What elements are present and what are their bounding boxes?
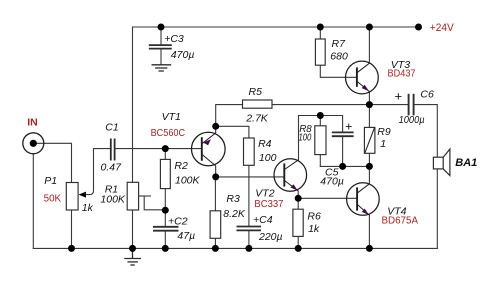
wire R4 bottom lead xyxy=(248,165,250,177)
wire R2 top lead xyxy=(164,149,166,160)
wire R9 top lead xyxy=(368,105,370,128)
wire C5 bottom lead xyxy=(342,136,344,166)
wire VT2 collector riser xyxy=(299,116,343,160)
wire R9 bottom lead xyxy=(368,153,370,166)
input jack IN xyxy=(23,133,44,154)
node C3/top rail xyxy=(158,24,165,31)
wire VT4 emitter lead xyxy=(368,215,370,248)
svg-text:BD437: BD437 xyxy=(388,69,416,80)
wire R8 top lead xyxy=(319,116,321,126)
svg-text:BD675A: BD675A xyxy=(382,216,419,227)
wire VT2 emitter node to VT4 base xyxy=(298,197,357,199)
capacitor C2 47u xyxy=(153,227,179,231)
svg-text:1: 1 xyxy=(380,138,386,150)
wire jack signal to P1 top xyxy=(37,143,72,182)
wire C4 bottom lead xyxy=(248,231,250,249)
transistor VT1 BC560C (PNP) xyxy=(192,126,226,177)
wire R8 bottom lead xyxy=(319,155,321,167)
wire R1 wiper tap xyxy=(139,195,151,197)
resistor R3 xyxy=(210,211,221,239)
node VT2 emitter/R6 xyxy=(295,195,302,202)
node VT1 base/C1/R2 xyxy=(162,145,169,152)
R9 diagonal xyxy=(365,128,375,153)
svg-text:P1: P1 xyxy=(44,175,57,187)
svg-text:100: 100 xyxy=(298,132,311,144)
svg-text:100K: 100K xyxy=(100,193,126,205)
wire top rail +24V xyxy=(133,26,419,28)
svg-text:BA1: BA1 xyxy=(455,157,477,169)
wire VT3 emitter lead xyxy=(368,92,370,105)
capacitor C5 470u xyxy=(332,132,354,136)
svg-text:8.2K: 8.2K xyxy=(223,208,246,220)
svg-text:R3: R3 xyxy=(226,193,240,205)
wire VT4 collector lead xyxy=(368,166,370,183)
svg-text:1k: 1k xyxy=(308,223,320,235)
svg-text:R2: R2 xyxy=(174,160,188,172)
svg-text:BC337: BC337 xyxy=(254,199,283,210)
node VT1 collector/R3 xyxy=(212,173,219,180)
resistor R7 xyxy=(315,39,325,65)
capacitor C1 0.47 xyxy=(111,139,115,161)
wire P1 bottom lead xyxy=(71,210,73,248)
svg-text:R9: R9 xyxy=(377,126,391,138)
node R9 bottom/VT4 collector xyxy=(366,163,373,170)
transistor VT4 BD675A (NPN darlington) xyxy=(347,183,380,216)
wire jack ground drop xyxy=(32,154,34,249)
resistor R1 100K (pot body) xyxy=(127,182,138,210)
resistor R4 xyxy=(244,138,255,165)
svg-text:BC560C: BC560C xyxy=(151,128,186,139)
node +24V terminal xyxy=(415,24,422,31)
node VT4 emitter rail xyxy=(366,245,373,252)
wire R3 bottom lead xyxy=(214,238,216,248)
node R1 bottom/ground xyxy=(129,245,136,252)
resistor R6 xyxy=(293,209,303,236)
svg-text:+: + xyxy=(395,88,403,103)
svg-text:+C2: +C2 xyxy=(168,216,188,228)
wire P1 wiper to C1 xyxy=(81,149,111,195)
wire R7 bottom to VT3 base xyxy=(320,65,357,77)
node R7/top rail xyxy=(317,24,324,31)
ground below C3 xyxy=(152,65,172,71)
node R8 top xyxy=(317,112,324,119)
transistor VT2 BC337 (NPN) xyxy=(274,159,307,192)
wire VT2 emitter short lead xyxy=(297,191,299,198)
node C5 bottom xyxy=(339,163,346,170)
wire R6 top lead xyxy=(297,198,299,209)
wire C3 top lead xyxy=(160,27,162,45)
capacitor C3 470u xyxy=(149,45,172,49)
capacitor C4 220u xyxy=(237,227,262,231)
svg-text:470µ: 470µ xyxy=(320,175,344,187)
svg-text:100K: 100K xyxy=(175,174,201,186)
svg-text:+C3: +C3 xyxy=(164,33,184,45)
wire R1 bottom to ground rail xyxy=(132,210,134,248)
potentiometer P1 body xyxy=(66,183,78,211)
wire R6 bottom lead xyxy=(297,236,299,248)
svg-text:R4: R4 xyxy=(258,138,272,150)
svg-text:2.7K: 2.7K xyxy=(245,112,269,124)
svg-text:470µ: 470µ xyxy=(171,49,195,61)
svg-text:+: + xyxy=(345,119,352,133)
wire R3 top lead xyxy=(214,177,216,211)
svg-text:VT2: VT2 xyxy=(255,188,274,200)
transistor VT3 BD437 (NPN) xyxy=(346,61,379,94)
wire VT3 collector lead xyxy=(368,27,370,62)
wire VT1 emitter to R4 top xyxy=(216,126,249,138)
wire C2 bottom lead xyxy=(164,231,166,249)
svg-text:220µ: 220µ xyxy=(258,231,283,243)
node R2/R1 wiper/C2 xyxy=(162,207,169,214)
svg-text:1k: 1k xyxy=(82,202,94,214)
node C4 bottom rail xyxy=(245,245,252,252)
node VT3 collector/top rail xyxy=(366,24,373,31)
wire R1 wiper riser xyxy=(144,196,165,210)
wire R8/C5 bottom bus to VT4 collector node xyxy=(320,165,369,167)
speaker BA1 xyxy=(433,149,450,176)
wire bottom ground rail xyxy=(33,247,437,249)
node VT1 emitter xyxy=(212,123,219,130)
ground below bottom rail xyxy=(124,248,141,265)
svg-text:0.47: 0.47 xyxy=(101,162,123,174)
svg-text:100: 100 xyxy=(259,152,277,164)
svg-text:50K: 50K xyxy=(44,193,62,204)
svg-text:C6: C6 xyxy=(420,89,434,101)
wire R5 right to output node and C6 xyxy=(272,104,408,106)
svg-text:1000µ: 1000µ xyxy=(399,114,425,126)
wire R7 top lead xyxy=(319,27,321,39)
svg-text:IN: IN xyxy=(27,116,38,128)
svg-text:+24V: +24V xyxy=(430,22,455,34)
wire C6 right to speaker xyxy=(414,105,437,158)
node P1 bottom rail xyxy=(68,245,75,252)
capacitor C6 1000u xyxy=(409,94,414,116)
wire R2 bottom lead to node xyxy=(164,189,166,211)
svg-text:VT1: VT1 xyxy=(162,111,181,123)
wire C3 bottom lead to ground xyxy=(160,49,162,65)
resistor R9 (variable) xyxy=(364,127,375,153)
svg-text:680: 680 xyxy=(330,51,348,63)
resistor R5 xyxy=(243,100,273,108)
svg-text:R7: R7 xyxy=(332,38,347,50)
node R6 bottom rail xyxy=(295,245,302,252)
wire VT1 collector to VT2 base xyxy=(216,176,285,178)
resistor R2 xyxy=(160,159,170,188)
wire speaker bottom to rail xyxy=(436,169,438,249)
P1 wiper arrow xyxy=(79,192,87,198)
wire C4 top lead xyxy=(248,177,250,226)
svg-text:C1: C1 xyxy=(105,122,118,134)
svg-text:47µ: 47µ xyxy=(177,230,195,242)
svg-text:R6: R6 xyxy=(307,211,321,223)
wire VT1 emitter riser to R5 xyxy=(216,105,243,127)
svg-text:+C4: +C4 xyxy=(253,214,273,226)
wire C2 top lead xyxy=(164,210,166,226)
resistor R8 xyxy=(315,126,326,155)
node R3 bottom rail xyxy=(212,245,219,252)
node C2 bottom rail xyxy=(162,245,169,252)
svg-text:R5: R5 xyxy=(249,86,263,98)
wire C1 to VT1 base (node A) xyxy=(115,148,202,150)
wire left riser from rail to R1 xyxy=(132,27,134,182)
node output/VT3 emitter xyxy=(366,101,373,108)
